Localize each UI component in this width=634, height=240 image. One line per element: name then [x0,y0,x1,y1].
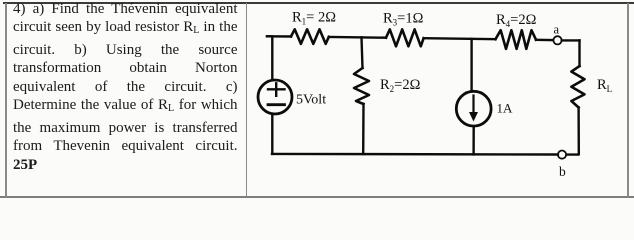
table bottom border [0,196,634,198]
svg-text:a: a [554,23,560,37]
svg-text:RL: RL [597,77,612,94]
svg-text:R1= 2Ω: R1= 2Ω [292,10,336,27]
wire top-left to R1 [267,35,291,38]
wire voltage source up to top-left corner [267,36,272,80]
V1 plus sign [268,83,285,96]
node: R2 branch junction [362,37,363,68]
resistor R2 [354,68,369,104]
wire RL to bottom-right corner [566,108,579,155]
voltage source V1 circle [258,80,292,114]
terminal a [553,36,561,44]
problem statement text [13,0,238,174]
wire R4 to terminal a [536,39,553,42]
resistor R3 [386,29,424,46]
table left border [5,3,7,197]
resistor R1 [291,29,329,44]
resistor RL [571,66,584,108]
wire terminal a to top-right corner [562,39,580,41]
wire left bottom up to voltage source [271,114,273,154]
wire R1 to R3 [329,36,386,39]
svg-text:1A: 1A [497,101,514,116]
I1 arrow [469,96,478,122]
wire right corner down to RL [578,40,580,66]
wire current source to bottom [472,126,475,154]
svg-text:b: b [559,164,566,179]
wire R2 to bottom [362,104,365,154]
svg-text:R2=2Ω: R2=2Ω [380,77,421,94]
svg-text:R3=1Ω: R3=1Ω [383,11,424,28]
node: current source branch junction [470,39,472,92]
svg-text:R4=2Ω: R4=2Ω [496,12,537,29]
svg-text:5Volt: 5Volt [296,93,326,108]
bottom wire from terminal b to left [272,153,558,156]
resistor R4 [496,30,537,49]
V1 minus sign [268,103,285,106]
current source I1 circle [456,91,491,126]
table top border [3,2,634,4]
terminal b [558,151,566,159]
wire R3 to R4 [424,38,496,39]
table right border [627,3,629,197]
table middle border [246,3,248,197]
